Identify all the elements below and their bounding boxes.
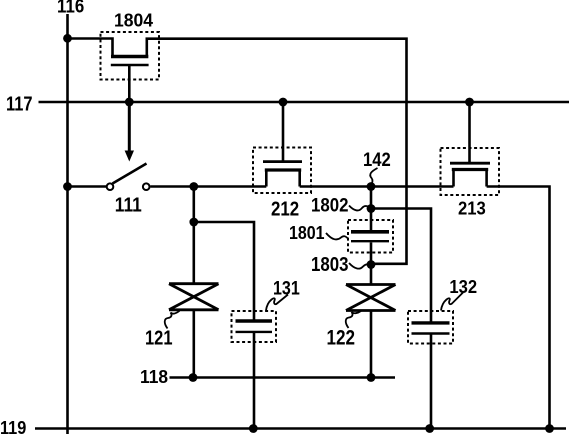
svg-text:131: 131	[273, 279, 300, 300]
svg-text:1803: 1803	[311, 254, 349, 276]
svg-text:1801: 1801	[289, 222, 325, 243]
svg-text:1804: 1804	[114, 9, 154, 30]
svg-text:121: 121	[145, 327, 173, 349]
svg-text:111: 111	[115, 194, 142, 217]
svg-text:142: 142	[363, 150, 391, 171]
svg-text:1802: 1802	[311, 195, 349, 217]
svg-text:118: 118	[140, 366, 168, 387]
svg-text:213: 213	[458, 198, 486, 219]
svg-text:119: 119	[0, 417, 26, 434]
svg-text:122: 122	[327, 327, 356, 350]
svg-text:117: 117	[6, 93, 33, 115]
svg-text:116: 116	[57, 0, 84, 17]
svg-text:132: 132	[449, 277, 477, 297]
svg-text:212: 212	[271, 198, 299, 221]
